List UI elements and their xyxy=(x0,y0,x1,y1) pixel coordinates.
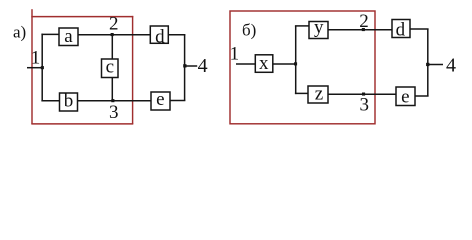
wire box y to box d through node 2 (fig b) xyxy=(328,29,392,31)
box e (fig b) xyxy=(396,87,415,106)
svg-text:y: y xyxy=(314,17,324,38)
wire input (fig a) xyxy=(27,67,43,69)
wire split to box y (fig b) xyxy=(295,25,309,27)
wire left vertical (fig a) xyxy=(41,34,43,102)
svg-text:c: c xyxy=(106,56,114,77)
box e (fig a) xyxy=(151,92,170,110)
wire box e to right corner (fig b) xyxy=(415,95,429,97)
svg-text:x: x xyxy=(259,53,269,74)
red frame top line (fig a) xyxy=(31,16,133,18)
red frame bottom line (fig a) xyxy=(31,123,133,125)
wire box z to box e through node 3 (fig b) xyxy=(328,93,396,95)
box z xyxy=(308,86,328,103)
svg-text:2: 2 xyxy=(109,14,119,35)
svg-text:3: 3 xyxy=(109,102,119,123)
svg-text:б): б) xyxy=(242,20,256,39)
box y xyxy=(309,22,328,39)
wire node 4 to label (fig a) xyxy=(185,65,198,67)
wire box d to right corner (fig a) xyxy=(168,34,185,36)
split junction dot (fig b) xyxy=(294,62,297,65)
svg-text:d: d xyxy=(396,20,406,41)
svg-text:e: e xyxy=(156,89,164,110)
wire right vertical top (fig a) xyxy=(184,35,186,101)
node 3 junction dot (fig b) xyxy=(362,93,365,96)
wire top-left horizontal to box a (fig a) xyxy=(41,33,59,35)
node 3 junction dot (fig a) xyxy=(111,99,114,102)
node 1 junction dot (fig a) xyxy=(41,66,44,69)
red frame left line (fig a) xyxy=(31,9,33,124)
svg-text:d: d xyxy=(155,26,165,47)
box c xyxy=(102,59,119,78)
node 2 junction dot (fig a) xyxy=(111,33,114,36)
wire split vertical (fig b) xyxy=(295,26,297,94)
svg-text:а): а) xyxy=(13,22,26,41)
red frame right line (fig a) xyxy=(132,16,134,124)
svg-text:1: 1 xyxy=(230,44,240,65)
node 4 junction dot (fig a) xyxy=(183,64,186,67)
wire box c down to node 3 (fig a) xyxy=(111,78,113,101)
svg-text:4: 4 xyxy=(446,55,456,77)
svg-text:1: 1 xyxy=(31,47,41,68)
wire right vertical (fig b) xyxy=(427,29,429,96)
wire box x to split (fig b) xyxy=(273,63,297,65)
svg-text:a: a xyxy=(64,26,73,47)
node 4 junction dot (fig b) xyxy=(426,63,429,66)
wire bottom-left horizontal to box b (fig a) xyxy=(41,100,59,102)
wire box e to right corner (fig a) xyxy=(170,100,185,102)
svg-text:e: e xyxy=(401,87,409,108)
svg-text:z: z xyxy=(315,83,323,104)
node 2 junction dot (fig b) xyxy=(362,28,365,31)
wire node 2 down to box c (fig a) xyxy=(111,35,113,59)
box a xyxy=(59,28,78,46)
wire split to box z (fig b) xyxy=(295,92,308,94)
wire box d to right corner (fig b) xyxy=(410,28,429,30)
box d (fig b) xyxy=(392,20,410,38)
svg-text:4: 4 xyxy=(198,55,208,77)
svg-text:b: b xyxy=(64,91,74,112)
svg-text:3: 3 xyxy=(360,95,370,116)
box b xyxy=(60,93,78,111)
wire input (fig b) xyxy=(236,63,255,65)
red frame (fig b) xyxy=(230,11,375,124)
wire box b to box e through node 3 (fig a) xyxy=(78,100,152,102)
wire box a to box d through node 2 (fig a) xyxy=(78,34,150,36)
box x xyxy=(255,55,272,73)
box d (fig a) xyxy=(150,26,168,43)
wire node 4 to label (fig b) xyxy=(428,64,443,66)
